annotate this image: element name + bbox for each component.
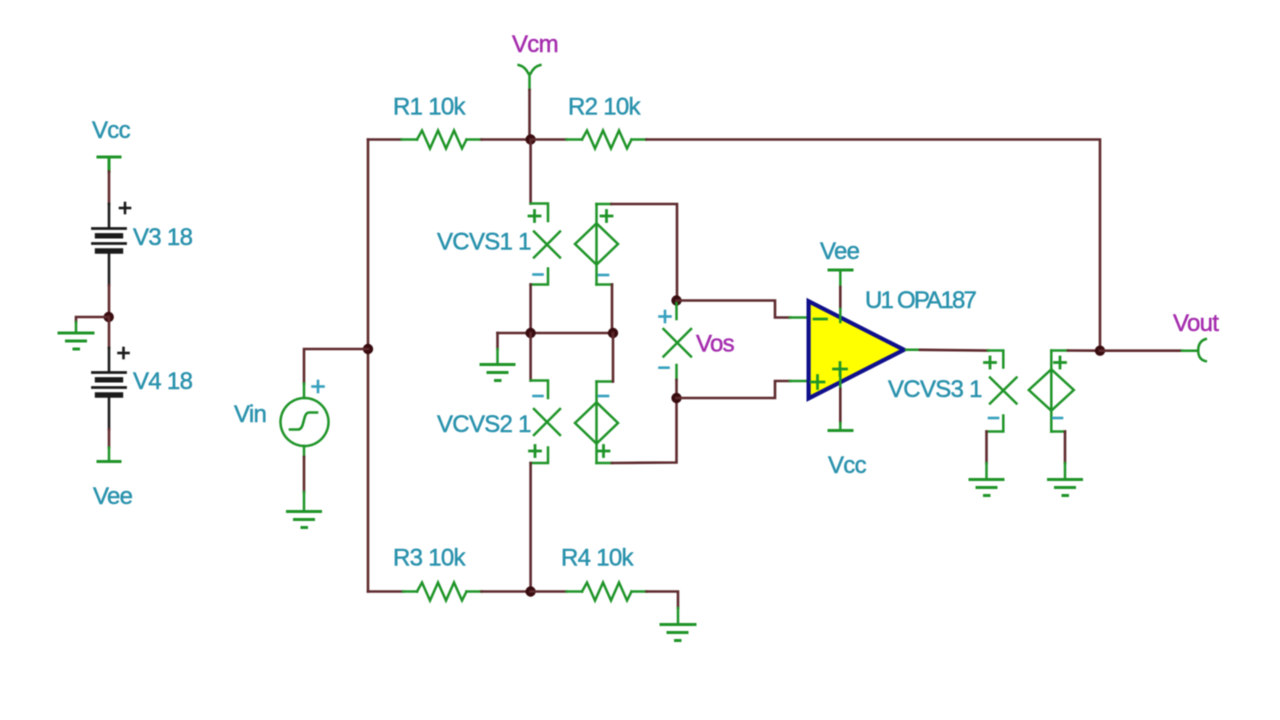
node D (bottom center)	[525, 586, 535, 596]
minus sign VCVS2 control	[534, 395, 543, 398]
VCVS1 control - terminal	[531, 269, 548, 285]
svg-text:R3 10k: R3 10k	[393, 545, 467, 572]
svg-text:R1 10k: R1 10k	[393, 94, 467, 121]
node C	[608, 328, 618, 338]
svg-text:Vcc: Vcc	[828, 452, 867, 479]
ground (VCVS3 diamond)	[1049, 463, 1082, 496]
wire R2 to feedback corner and down to output node	[647, 140, 1101, 351]
wire node A to R2	[531, 138, 567, 141]
wire Vee terminal to op-amp	[839, 287, 842, 309]
node A (top center)	[525, 134, 535, 144]
plus sign VCVS3 diamond	[1055, 357, 1066, 368]
wire R1 to node A	[482, 138, 531, 141]
VCVS1 control + terminal	[531, 204, 548, 222]
wire bottom rail to R3	[368, 590, 403, 593]
minus mark (inverting input)	[814, 318, 827, 321]
battery V4	[93, 348, 129, 429]
wire Vcm stem	[528, 90, 531, 140]
minus sign VCVS1 diamond	[599, 274, 608, 277]
VCVS2 source diamond	[575, 382, 618, 464]
source Vos leads	[675, 303, 678, 380]
svg-text:Vcm: Vcm	[512, 31, 558, 58]
wire VCVS3 control to ground	[985, 432, 988, 464]
battery V3	[93, 203, 131, 285]
VCVS1 control X	[534, 232, 560, 258]
minus sign Vos	[660, 366, 669, 369]
node output	[1095, 346, 1105, 356]
wire V3 to battery midpoint node	[108, 285, 111, 317]
VCVS2 control X	[534, 409, 560, 435]
ground (mid rail)	[481, 349, 514, 381]
wire op-amp output to VCVS3	[920, 348, 988, 351]
svg-text:Vee: Vee	[820, 238, 860, 265]
svg-text:Vin: Vin	[234, 401, 266, 428]
svg-text:Vee: Vee	[93, 483, 133, 510]
resistor R1	[402, 131, 482, 149]
VCVS3 source diamond	[1029, 351, 1074, 432]
wire Vin tap to source	[304, 349, 368, 384]
plus sign Vin	[313, 381, 324, 392]
wire output node to Vout port	[1100, 349, 1182, 352]
op-amp U1 triangle	[809, 301, 904, 398]
VCVS3 control + terminal	[988, 351, 1003, 368]
wire top rail to R1	[368, 138, 402, 141]
terminal Vcc	[98, 157, 120, 172]
VCVS2 control - terminal	[531, 381, 548, 399]
wire node A down to VCVS1	[529, 140, 532, 204]
minus sign VCVS3 control	[989, 417, 998, 420]
minus sign VCVS2 diamond	[599, 395, 608, 398]
plus mark (non-inverting input)	[811, 376, 824, 389]
terminal Vee (op-amp)	[829, 270, 852, 287]
svg-text:Vcc: Vcc	[92, 117, 131, 144]
VCVS2 control + terminal	[531, 448, 548, 464]
wire node to V4	[108, 317, 111, 348]
node Vin tap	[363, 344, 373, 354]
wire Vos bottom node to op-amp non-inverting input	[677, 381, 791, 398]
port Vcm	[519, 65, 541, 90]
node B	[525, 328, 535, 338]
op-amp top supply pin	[839, 309, 842, 322]
plus sign Vos	[660, 311, 671, 322]
ground (VCVS3 control)	[970, 463, 1003, 496]
wire node to ground stub	[76, 317, 109, 322]
terminal Vcc (op-amp)	[829, 423, 852, 431]
svg-text:Vos: Vos	[696, 331, 735, 358]
port Vout	[1182, 339, 1206, 361]
wire mid rail to ground stub	[496, 333, 499, 349]
wire node B down to VCVS2	[529, 333, 532, 381]
node Vos top	[671, 295, 681, 305]
wire op-amp to Vcc terminal	[839, 389, 842, 423]
VCVS3 control - terminal	[987, 416, 1004, 432]
resistor R4	[567, 583, 647, 601]
plus sign VCVS2 diamond	[598, 446, 609, 457]
source Vin	[281, 384, 329, 458]
wire Vos lead to bottom node	[675, 380, 678, 398]
wire VCVS1 diamond bottom to node C	[611, 285, 614, 334]
wire VCVS1 diamond top to Vos column	[612, 204, 678, 301]
svg-text:V3 18: V3 18	[133, 224, 193, 251]
plus sign VCVS2 control	[530, 446, 541, 457]
op-amp U1 input leads	[790, 318, 807, 382]
svg-text:VCVS1 1: VCVS1 1	[437, 229, 531, 256]
svg-text:Vout: Vout	[1173, 310, 1219, 337]
plus sign VCVS3 control	[985, 357, 996, 368]
resistor R3	[403, 583, 482, 601]
op-amp output lead	[906, 349, 920, 352]
wire VCVS2 diamond bottom to Vos bottom node	[612, 398, 677, 463]
wire R4 to ground corner	[647, 592, 679, 609]
wire Vcc terminal to V3	[108, 172, 111, 205]
VCVS1 source diamond	[575, 204, 618, 285]
wire V4 to Vee terminal	[108, 429, 111, 448]
minus sign VCVS3 diamond	[1053, 417, 1062, 420]
node battery midpoint	[104, 312, 114, 322]
source Vos X	[664, 329, 692, 357]
ground (Vin)	[288, 492, 321, 528]
wire VCVS3 diamond to ground	[1064, 432, 1067, 464]
svg-text:R4 10k: R4 10k	[561, 545, 635, 572]
minus sign VCVS1 control	[534, 273, 543, 276]
svg-text:R2 10k: R2 10k	[568, 94, 642, 121]
svg-text:VCVS2 1: VCVS2 1	[437, 411, 531, 438]
svg-text:U1 OPA187: U1 OPA187	[865, 287, 977, 314]
terminal Vee	[98, 448, 120, 462]
plus sign VCVS1 control	[529, 211, 540, 222]
op-amp bottom supply pin	[839, 372, 842, 389]
wire VCVS2 control to bottom rail	[529, 463, 532, 592]
wire node D to R4	[531, 590, 567, 593]
wire left bus	[367, 140, 370, 592]
wire VCVS3 diamond to output node	[1068, 349, 1100, 352]
wire mid rail	[498, 332, 614, 335]
node Vos bottom	[671, 393, 681, 403]
svg-text:VCVS3 1: VCVS3 1	[888, 376, 982, 403]
resistor R2	[567, 131, 647, 149]
svg-text:V4 18: V4 18	[133, 368, 193, 395]
ground (battery midpoint)	[59, 322, 93, 349]
wire Vos top node to op-amp inverting input	[677, 301, 791, 318]
wire Vin to ground	[303, 457, 306, 492]
wire R3 to node D	[482, 590, 531, 593]
plus sign VCVS1 diamond	[601, 211, 612, 222]
VCVS3 control X	[990, 378, 1017, 404]
ground (R4)	[661, 608, 695, 641]
wire VCVS1 control to node B	[529, 285, 532, 334]
plus mark (positive supply)	[834, 363, 847, 376]
wire node C down to VCVS2 diamond	[612, 333, 615, 382]
